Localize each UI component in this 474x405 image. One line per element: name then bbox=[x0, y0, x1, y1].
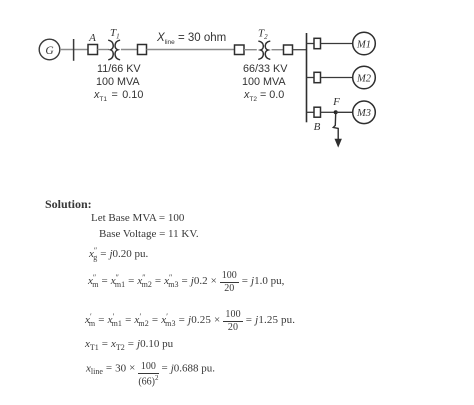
svg-text:F: F bbox=[332, 96, 340, 108]
svg-text:T1: T1 bbox=[110, 27, 120, 41]
wire breaker to node F bbox=[321, 111, 336, 113]
motor M3 bbox=[353, 101, 376, 124]
svg-text:B: B bbox=[314, 121, 321, 133]
svg-text:M3: M3 bbox=[356, 108, 371, 119]
wire breaker to motor M2 bbox=[321, 77, 353, 79]
wire node F to motor M3 bbox=[336, 111, 353, 113]
node F dot bbox=[334, 110, 338, 114]
wire G to breaker A bbox=[60, 49, 88, 51]
equation x'm with fraction 100/20 bbox=[85, 310, 295, 333]
fault arrow at F bbox=[333, 113, 342, 148]
bus tick at generator bbox=[73, 39, 75, 61]
breaker M1 bbox=[314, 38, 321, 48]
bus B vertical bbox=[306, 33, 308, 122]
wire breaker to T2 bbox=[244, 49, 257, 51]
svg-text:M1: M1 bbox=[356, 39, 371, 50]
equation x''g bbox=[89, 248, 148, 260]
svg-text:G: G bbox=[45, 45, 54, 57]
wire bus to breaker M1 bbox=[307, 43, 315, 45]
wire T1 to breaker bbox=[121, 49, 138, 51]
svg-text:T2: T2 bbox=[258, 28, 268, 42]
label 100 MVA (T1) bbox=[96, 76, 140, 88]
label xT1 = 0.10 bbox=[94, 89, 143, 101]
transformer T2 bbox=[259, 41, 270, 59]
wire breaker A to T1 bbox=[98, 49, 110, 51]
wire transmission line bbox=[147, 49, 235, 51]
solution heading bbox=[45, 197, 92, 212]
wire bus to breaker M3 bbox=[307, 111, 315, 113]
label xT2 = 0.0 bbox=[244, 89, 284, 101]
breaker M2 bbox=[314, 72, 321, 82]
motor M1 bbox=[353, 32, 376, 55]
equation x''m with fraction 100/20 bbox=[88, 271, 284, 294]
breaker after T1 bbox=[138, 45, 147, 55]
label X_line = 30 ohm bbox=[157, 32, 226, 44]
breaker after T2 bbox=[284, 45, 293, 55]
wire bus to breaker M2 bbox=[307, 77, 315, 79]
svg-text:A: A bbox=[88, 32, 96, 44]
generator G bbox=[39, 39, 60, 60]
svg-text:M2: M2 bbox=[356, 73, 372, 84]
wire breaker to bus B bbox=[293, 49, 307, 51]
label 11/66 KV bbox=[97, 63, 141, 75]
transformer T1 bbox=[109, 40, 120, 59]
wire breaker to motor M1 bbox=[321, 43, 353, 45]
circuit schematic drawing bbox=[0, 0, 474, 185]
breaker B on M3 branch bbox=[314, 107, 321, 117]
solution line: Let Base MVA = 100 bbox=[91, 212, 184, 224]
wire T2 to breaker bbox=[272, 49, 284, 51]
label 100 MVA (T2) bbox=[242, 76, 286, 88]
motor M2 bbox=[353, 66, 376, 89]
equation x line with fraction 100/(66)^2 bbox=[86, 362, 215, 387]
equation xT1 = xT2 bbox=[85, 338, 173, 350]
label 66/33 KV bbox=[243, 63, 287, 75]
breaker A bbox=[88, 45, 98, 55]
breaker before T2 bbox=[235, 45, 245, 55]
solution line: Base Voltage = 11 KV. bbox=[99, 228, 199, 240]
